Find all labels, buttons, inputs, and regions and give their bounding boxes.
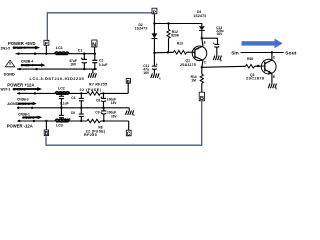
connector arrow CN30-2 [18, 102, 37, 106]
connector arrow CN30-4 [13, 46, 41, 51]
resistor R13 [173, 41, 194, 54]
wire DGND rail [17, 68, 97, 70]
svg-text:16V: 16V [217, 32, 224, 36]
inductor LC2 [55, 86, 69, 94]
inductor LC3 [55, 119, 69, 127]
svg-text:RF255: RF255 [84, 133, 97, 137]
svg-text:2SA1175: 2SA1175 [180, 63, 196, 67]
svg-text:LC2: LC2 [58, 86, 65, 90]
node dot [167, 51, 169, 53]
node dot [35, 68, 37, 70]
connector arrow CN30-4 DGND [21, 63, 46, 67]
arrow blue signal [242, 39, 283, 49]
diode D3 [199, 26, 205, 38]
ground under Q3 [268, 84, 277, 91]
svg-text:DGND: DGND [4, 73, 15, 77]
connector box above C2 [92, 40, 97, 54]
node dot collector [201, 66, 203, 68]
capacitor C11 [143, 53, 158, 75]
node dot box drop [45, 120, 47, 122]
svg-text:CN3B-3: CN3B-3 [17, 98, 29, 102]
svg-text:A: A [275, 87, 277, 91]
svg-text:+: + [81, 56, 83, 60]
svg-text:1M: 1M [191, 78, 196, 82]
svg-text:0.1uF: 0.1uF [62, 117, 71, 121]
wire -12V rail [18, 120, 129, 122]
wire collector to R20 [202, 66, 246, 67]
wire emitter node to C13 [202, 38, 218, 44]
wire Sin to Sout [241, 52, 284, 54]
resistor R8 [84, 119, 106, 137]
ground AGND end [126, 108, 135, 117]
node dot [34, 53, 36, 55]
capacitor C9 [95, 108, 117, 122]
node dot [34, 92, 36, 94]
capacitor C8 [96, 92, 117, 109]
svg-text:2SC2878: 2SC2878 [246, 77, 264, 81]
connector box -12 rail end [126, 121, 131, 137]
wire B+ rail right [154, 24, 201, 27]
label D3 1S2473 [193, 10, 206, 18]
node dot [167, 22, 169, 24]
capacitor bypass lower-left [59, 107, 64, 121]
svg-text:Sout: Sout [285, 50, 297, 56]
transistor Q3 2SC2878 [246, 53, 276, 84]
wire AGND rail [17, 107, 129, 109]
svg-text:22 (FUSE): 22 (FUSE) [80, 88, 102, 92]
node dot [153, 52, 155, 54]
resistor R7 [80, 82, 108, 95]
connector box below -12 rail [44, 121, 49, 137]
node dot [18, 92, 20, 94]
svg-text:B: B [200, 96, 204, 102]
diode D2 [152, 24, 158, 53]
svg-text:C2: C2 [99, 58, 103, 62]
svg-text:16V: 16V [111, 115, 118, 119]
svg-text:1S2473: 1S2473 [193, 14, 206, 18]
node dot [31, 107, 33, 109]
svg-text:LC3: LC3 [56, 123, 63, 127]
svg-text:C1: C1 [78, 49, 83, 53]
connector P2 top [152, 8, 157, 23]
resistor R14 [191, 67, 204, 92]
connector box +12 rail end [126, 78, 130, 93]
svg-text:A: A [133, 113, 135, 117]
svg-text:C9: C9 [95, 111, 99, 115]
inductor LC1 [55, 46, 69, 54]
svg-text:A: A [159, 76, 161, 80]
svg-text:0.1uF: 0.1uF [60, 102, 69, 106]
wire +12V rail [17, 92, 128, 94]
svg-text:POWER -12A: POWER -12A [7, 124, 33, 129]
svg-text:A: A [220, 59, 222, 63]
svg-text:C6: C6 [71, 111, 75, 115]
svg-text:C4: C4 [71, 96, 75, 100]
node dot [17, 53, 19, 55]
node dot [18, 120, 20, 122]
ground under C11 [151, 73, 161, 80]
capacitor C4 [60, 92, 84, 109]
transistor Q1 2SA1175 [180, 38, 207, 67]
resistor R20 [246, 57, 265, 68]
wire blue bottom from box to box [46, 101, 202, 145]
wire +5V rail [16, 53, 96, 55]
svg-text:P: P [45, 41, 48, 46]
node dot C8/C9 [102, 107, 104, 109]
svg-text:0.1uF: 0.1uF [99, 63, 108, 67]
connector box below R14 [199, 92, 204, 102]
svg-text:LC1: LC1 [56, 46, 63, 50]
label D2 1S2473 [135, 23, 148, 30]
connector arrow CN30-3 [13, 87, 43, 92]
svg-text:16V: 16V [143, 71, 150, 75]
capacitor C6 [62, 108, 84, 122]
svg-text:16V: 16V [111, 101, 118, 105]
connector P1 [44, 40, 49, 53]
svg-text:LC1-3:DST210-91D2235: LC1-3:DST210-91D2235 [30, 76, 85, 81]
svg-text:Sin: Sin [231, 50, 239, 56]
node dot [17, 107, 19, 109]
node dot [33, 120, 35, 122]
svg-text:R7 RF255: R7 RF255 [89, 82, 107, 86]
svg-text:R13: R13 [177, 41, 183, 45]
ground DGND [88, 69, 96, 78]
capacitor bypass upper-left [59, 92, 64, 109]
svg-text:16V: 16V [70, 63, 77, 67]
node dot [19, 68, 21, 70]
wire blue top from P connector to P connector [47, 13, 152, 41]
resistor R12 [167, 24, 180, 53]
wire base node [154, 51, 173, 54]
caution triangle [5, 60, 15, 67]
capacitor C2 [92, 53, 107, 71]
svg-text:Q1: Q1 [186, 59, 191, 63]
svg-text:WST-3: WST-3 [1, 88, 11, 92]
svg-text:C: C [127, 131, 131, 137]
svg-text:R20: R20 [247, 57, 253, 61]
connector arrow CN30-1 [22, 116, 42, 120]
node dot Q3 base [257, 65, 259, 67]
svg-text:2W1-5: 2W1-5 [1, 47, 11, 51]
node dot emitter [201, 37, 203, 39]
svg-text:B: B [45, 131, 49, 137]
svg-text:820K: 820K [171, 34, 180, 38]
capacitor C13 [213, 26, 224, 55]
node dot [153, 22, 155, 24]
ground under C13 [213, 56, 222, 63]
node dot Sin line [271, 51, 273, 53]
node dot P1 tap [45, 53, 47, 55]
capacitor C1 [69, 49, 87, 71]
svg-text:1S2473: 1S2473 [135, 26, 148, 30]
